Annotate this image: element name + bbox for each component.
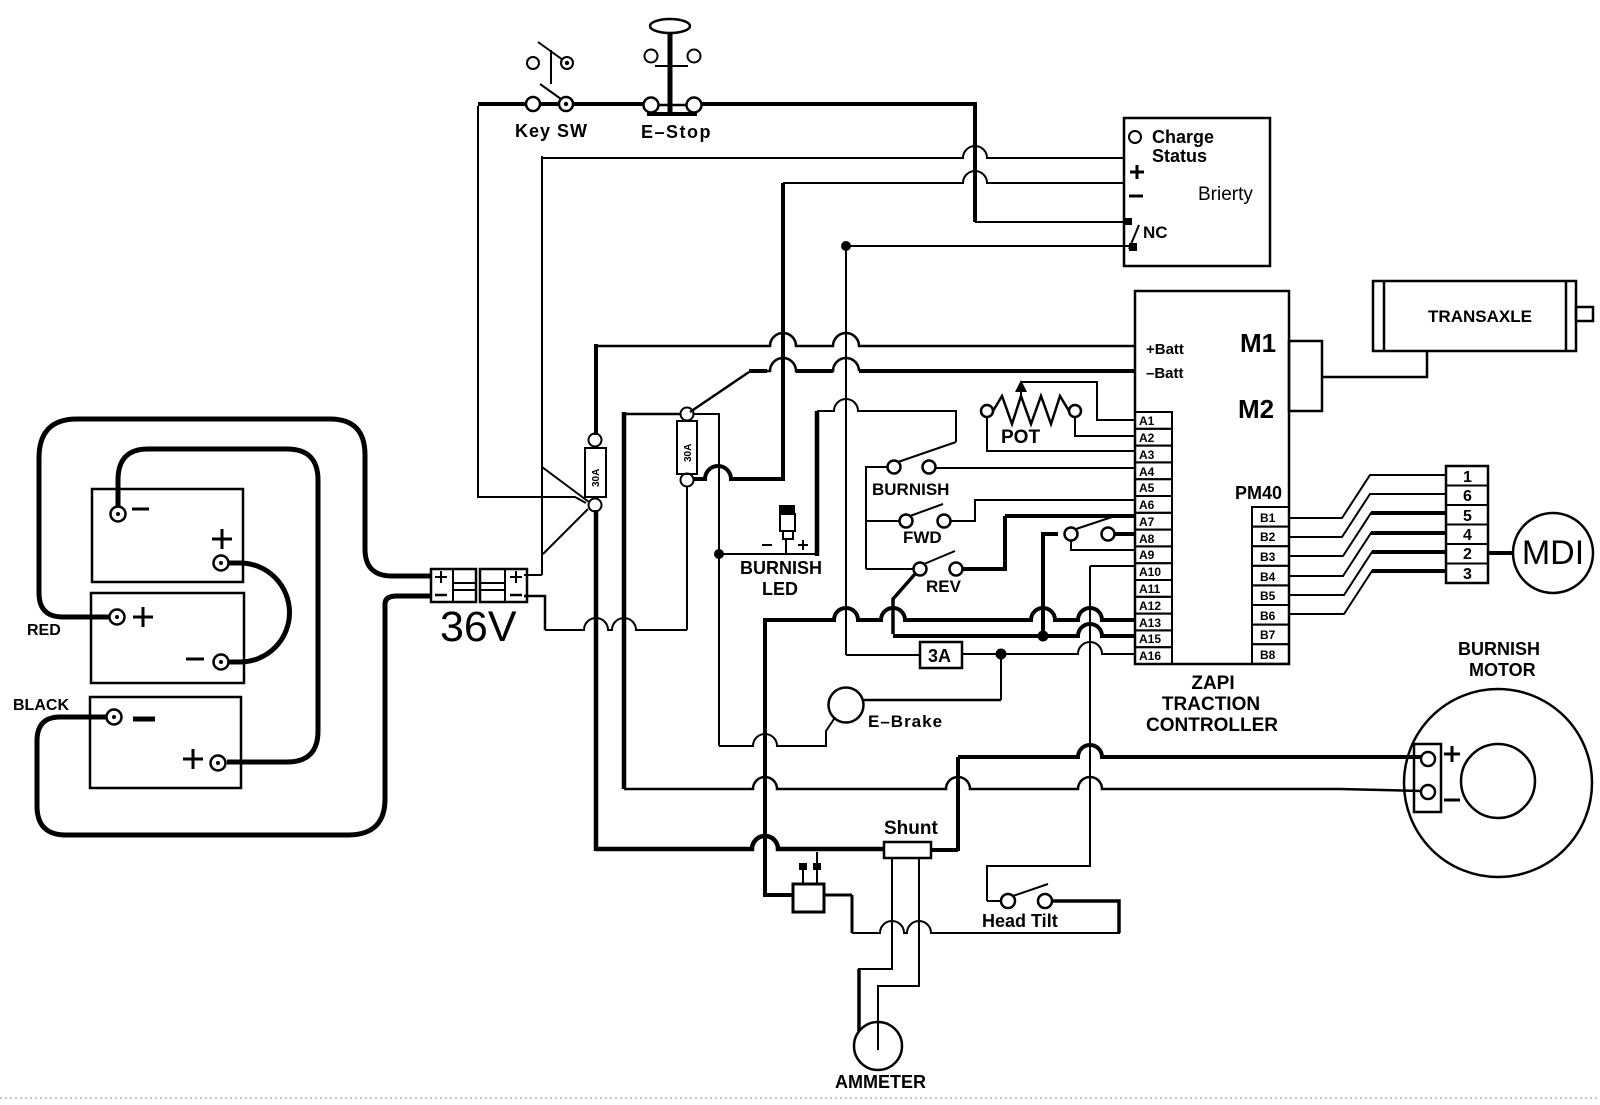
svg-text:30A: 30A — [683, 444, 694, 462]
svg-text:TRACTION: TRACTION — [1162, 694, 1260, 715]
svg-text:A7: A7 — [1139, 515, 1155, 529]
svg-text:NC: NC — [1143, 223, 1168, 242]
svg-text:Status: Status — [1152, 146, 1207, 166]
svg-text:BURNISH: BURNISH — [740, 558, 822, 578]
svg-text:M1: M1 — [1240, 328, 1276, 358]
svg-text:TRANSAXLE: TRANSAXLE — [1428, 307, 1532, 326]
svg-text:1: 1 — [1463, 469, 1472, 486]
svg-text:CONTROLLER: CONTROLLER — [1146, 715, 1278, 736]
svg-text:Key SW: Key SW — [515, 121, 588, 141]
svg-text:E–Stop: E–Stop — [641, 122, 712, 142]
svg-text:+Batt: +Batt — [1146, 341, 1184, 358]
svg-text:M2: M2 — [1238, 394, 1274, 424]
svg-text:Brierty: Brierty — [1198, 184, 1253, 205]
svg-text:BLACK: BLACK — [13, 697, 69, 714]
svg-text:BURNISH: BURNISH — [1458, 639, 1540, 659]
svg-text:A10: A10 — [1139, 565, 1161, 579]
svg-text:RED: RED — [27, 622, 61, 639]
svg-text:A11: A11 — [1139, 582, 1161, 596]
svg-text:30A: 30A — [591, 469, 602, 487]
svg-text:B3: B3 — [1260, 550, 1276, 564]
svg-text:A2: A2 — [1139, 431, 1155, 445]
svg-text:ZAPI: ZAPI — [1191, 673, 1234, 694]
svg-text:A12: A12 — [1139, 599, 1161, 613]
svg-text:B5: B5 — [1260, 589, 1276, 603]
svg-text:MDI: MDI — [1522, 534, 1584, 572]
svg-text:B6: B6 — [1260, 609, 1276, 623]
svg-text:5: 5 — [1463, 508, 1472, 525]
svg-text:2: 2 — [1463, 546, 1472, 563]
svg-text:B8: B8 — [1260, 648, 1276, 662]
svg-text:FWD: FWD — [903, 528, 942, 547]
svg-text:3A: 3A — [928, 646, 951, 666]
svg-text:A6: A6 — [1139, 498, 1155, 512]
svg-text:POT: POT — [1001, 427, 1040, 448]
svg-text:MOTOR: MOTOR — [1469, 660, 1536, 680]
svg-text:4: 4 — [1463, 527, 1472, 544]
svg-text:A5: A5 — [1139, 481, 1155, 495]
svg-text:REV: REV — [926, 577, 962, 596]
svg-text:A1: A1 — [1139, 414, 1155, 428]
svg-text:A15: A15 — [1139, 632, 1161, 646]
svg-text:A13: A13 — [1139, 616, 1161, 630]
svg-text:A9: A9 — [1139, 548, 1155, 562]
svg-text:A4: A4 — [1139, 465, 1155, 479]
svg-text:AMMETER: AMMETER — [835, 1072, 926, 1092]
svg-text:Shunt: Shunt — [884, 818, 938, 839]
svg-text:A16: A16 — [1139, 649, 1161, 663]
svg-text:LED: LED — [762, 579, 798, 599]
svg-text:B1: B1 — [1260, 511, 1276, 525]
svg-text:Charge: Charge — [1152, 127, 1214, 147]
svg-text:BURNISH: BURNISH — [872, 480, 949, 499]
svg-text:B2: B2 — [1260, 530, 1276, 544]
svg-text:B4: B4 — [1260, 570, 1276, 584]
svg-text:A8: A8 — [1139, 532, 1155, 546]
svg-text:–Batt: –Batt — [1146, 365, 1184, 382]
svg-text:Head Tilt: Head Tilt — [982, 911, 1058, 931]
svg-text:36V: 36V — [440, 603, 517, 651]
svg-text:3: 3 — [1463, 566, 1472, 583]
svg-text:6: 6 — [1463, 488, 1472, 505]
svg-text:E–Brake: E–Brake — [868, 712, 943, 731]
svg-text:B7: B7 — [1260, 628, 1276, 642]
svg-text:PM40: PM40 — [1235, 483, 1282, 503]
svg-text:A3: A3 — [1139, 448, 1155, 462]
